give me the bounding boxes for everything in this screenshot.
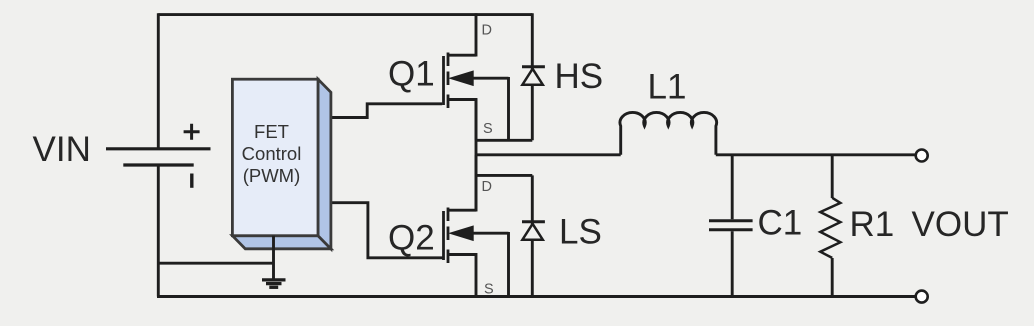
wire HS junction segment	[476, 139, 532, 142]
svg-text:FET: FET	[254, 121, 289, 142]
transistor Q2	[444, 155, 509, 297]
svg-text:D: D	[482, 179, 492, 195]
wire top rail	[158, 13, 532, 16]
diode LS	[522, 175, 545, 296]
svg-text:S: S	[483, 121, 493, 137]
wire left rail upper	[157, 13, 160, 148]
battery B1 top plate	[106, 147, 211, 150]
svg-text:S: S	[484, 282, 494, 298]
battery B1 bottom plate	[123, 163, 193, 166]
svg-text:VOUT: VOUT	[912, 205, 1009, 244]
transistor Q1	[444, 13, 509, 140]
U1 front face	[232, 79, 318, 236]
ground	[262, 236, 286, 288]
wire left rail lower	[157, 166, 160, 297]
wire switch node to L1	[476, 153, 621, 156]
svg-text:R1: R1	[850, 205, 895, 244]
svg-text:Control: Control	[242, 143, 302, 164]
svg-text:Q2: Q2	[388, 219, 435, 258]
battery B1 plus sign	[184, 124, 200, 140]
wire ground branch	[158, 262, 273, 265]
wire bottom rail	[157, 295, 916, 298]
U1 bottom face	[232, 236, 331, 249]
wire LS top segment	[476, 174, 532, 177]
wire L1 to VOUT+	[716, 153, 916, 156]
resistor R1	[820, 155, 840, 297]
diode HS	[522, 13, 545, 140]
svg-text:VIN: VIN	[33, 130, 91, 169]
capacitor C1	[709, 155, 753, 297]
terminal VOUT-	[916, 291, 928, 303]
svg-text:HS: HS	[555, 57, 604, 96]
svg-text:LS: LS	[559, 213, 602, 252]
inductor L1	[620, 112, 717, 154]
svg-text:(PWM): (PWM)	[243, 165, 301, 186]
FET control box U1	[232, 79, 331, 249]
terminal VOUT+	[916, 150, 928, 162]
svg-text:Q1: Q1	[388, 55, 435, 94]
wire gate Q2	[331, 203, 444, 258]
wire gate Q1	[331, 104, 442, 118]
svg-text:D: D	[482, 23, 492, 39]
battery B1 minus sign	[190, 174, 193, 188]
svg-text:C1: C1	[758, 204, 803, 243]
U1 right face	[318, 79, 331, 249]
svg-text:L1: L1	[648, 68, 687, 107]
wire switch node vertical	[475, 99, 478, 211]
